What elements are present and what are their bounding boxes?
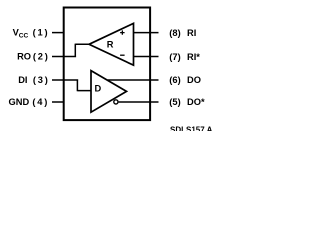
svg-text:D: D [95,83,102,93]
svg-text:RO: RO [17,52,31,62]
svg-text:RI*: RI* [187,52,200,62]
svg-text:GND: GND [9,97,30,107]
svg-text:SDLS157 A: SDLS157 A [170,125,213,131]
svg-text:RI: RI [187,28,196,38]
svg-text:(8): (8) [169,28,180,38]
svg-text:(6): (6) [169,75,180,85]
svg-text:DI: DI [18,75,27,85]
svg-text:(4): (4) [32,97,49,107]
svg-text:(3): (3) [33,75,50,85]
svg-text:(5): (5) [169,97,180,107]
svg-text:DO: DO [187,75,201,85]
svg-text:DO*: DO* [187,97,205,107]
svg-text:R: R [107,40,114,50]
svg-text:(7): (7) [169,52,180,62]
svg-text:(1): (1) [33,28,50,38]
svg-text:(2): (2) [33,52,50,62]
